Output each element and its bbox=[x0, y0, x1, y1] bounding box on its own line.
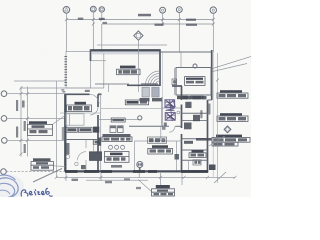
kitchen west wall upper bbox=[97, 94, 99, 107]
door jamb below stamp bbox=[164, 123, 167, 127]
bath partition x93.7 bbox=[93, 140, 95, 152]
porch outline top-left bbox=[66, 52, 91, 89]
bath partition x86 lower bbox=[85, 160, 87, 171]
store label text row right bbox=[184, 141, 193, 144]
Revised handwriting bbox=[21, 188, 52, 196]
dim text segment B-C bbox=[99, 18, 105, 20]
kitchen room label box bbox=[105, 152, 130, 163]
bottom dim line 2 bbox=[86, 179, 148, 181]
hall door swing at store bbox=[169, 126, 175, 132]
gray band below north wall bbox=[92, 52, 159, 55]
blue revision stamp squares bbox=[165, 100, 175, 120]
dark stair rect bbox=[90, 152, 102, 161]
tub fixture bbox=[184, 123, 192, 130]
bottom title box bbox=[152, 189, 175, 196]
left vertical dimension line 1 bbox=[20, 87, 23, 157]
AC unit outside right corner bbox=[209, 165, 216, 171]
kitchen island label text bbox=[103, 134, 131, 137]
grid D light continuation through block bbox=[162, 52, 164, 97]
north wall of great room bbox=[91, 49, 161, 51]
great room label box bbox=[117, 66, 141, 75]
grid bubble E bbox=[176, 7, 182, 24]
store wing partition y160 bbox=[182, 159, 208, 161]
grid line C down bbox=[101, 24, 103, 53]
stool circles bbox=[109, 145, 125, 149]
left grid bubble 3 bbox=[2, 138, 65, 144]
text dashes on corridor wall bbox=[141, 83, 158, 85]
bath partition y138.7 bbox=[182, 138, 208, 140]
hall grid line x100.7 bbox=[100, 94, 102, 170]
rotated dim text on right wall bbox=[208, 104, 210, 115]
small dim text 2.40 bbox=[200, 110, 202, 118]
hall wall x165 bbox=[161, 97, 163, 126]
right diamond marker bbox=[224, 126, 231, 133]
bedroom2 label box bbox=[185, 77, 205, 86]
rotated dim text left bbox=[16, 100, 18, 111]
grid line F light continuation bbox=[212, 52, 214, 177]
dim text D-E lower bbox=[155, 24, 164, 26]
bedroom north wall bbox=[65, 93, 102, 95]
blue stamp dark scribble bbox=[166, 100, 176, 122]
left grid bubble 1 bbox=[1, 91, 64, 97]
dark wall chunk kitchen west bbox=[98, 138, 101, 146]
grid bubble C bbox=[99, 7, 104, 20]
blue smudge behind swirl bbox=[0, 174, 24, 200]
bedroom door swing bbox=[90, 94, 100, 104]
laundry fixture below store label bbox=[193, 160, 201, 165]
grid line x104 inside great room bbox=[103, 54, 105, 89]
store label box B bbox=[189, 150, 206, 157]
right vertical dim line bbox=[214, 53, 226, 183]
eave line above north wall bbox=[97, 44, 167, 46]
door fan arcs bbox=[146, 71, 160, 85]
bed outline bbox=[66, 114, 84, 125]
porch column hatch steps bbox=[61, 56, 67, 92]
sink fixture bbox=[193, 115, 200, 121]
left outside label box upper bbox=[28, 121, 53, 135]
leader to diamond bbox=[209, 136, 225, 146]
interior line y60.7 bbox=[91, 60, 106, 62]
bedroom2 inner room outline bbox=[176, 68, 211, 96]
bath door arc bbox=[78, 152, 87, 161]
right exterior wall upper bbox=[211, 50, 213, 100]
blue pen swirl bottom left bbox=[0, 175, 18, 198]
bath fixture circle bbox=[66, 155, 70, 159]
left vertical dimension line 2 bbox=[26, 87, 29, 157]
leader diagonal top right 1 bbox=[213, 57, 252, 69]
grid bubble A top-left bbox=[63, 7, 70, 20]
grid bubble F bbox=[210, 7, 216, 24]
right outside label box 1 bbox=[217, 90, 248, 98]
left grid bubble 2 bbox=[1, 116, 64, 122]
hall partition y108 bbox=[101, 108, 162, 110]
bottom title leader diagonal bbox=[138, 180, 152, 192]
niche box on bedroom2 west wall bbox=[172, 79, 177, 85]
partition x160.8 to store bbox=[160, 126, 162, 141]
header line y81 bbox=[95, 83, 129, 85]
west wall stub of great room bbox=[90, 49, 92, 61]
store text row right bbox=[196, 138, 212, 141]
WC pan fixture bbox=[93, 140, 99, 145]
media furniture left bbox=[142, 88, 149, 98]
closet label text under furniture right bbox=[152, 98, 163, 101]
top dimension line 2 bbox=[92, 23, 215, 26]
grid line x138 inside great room bbox=[137, 47, 139, 92]
bottom title dark text bbox=[156, 185, 170, 188]
corridor wall y126.3 bbox=[129, 125, 169, 127]
wardrobe dark label row bbox=[66, 127, 99, 133]
grid line A down bbox=[65, 20, 67, 52]
bath partition y120.5 bbox=[182, 120, 208, 122]
bath labels dark row bbox=[177, 96, 204, 99]
grid bubble B bbox=[90, 6, 96, 19]
dim text 17.35 top center bbox=[138, 14, 151, 16]
small marker circle right of stamp bbox=[177, 111, 180, 114]
bath partition y113 bbox=[182, 112, 208, 114]
bottom dim text bbox=[72, 179, 79, 181]
range appliances pair bbox=[110, 126, 123, 133]
inner partition x174.5 bbox=[174, 68, 176, 95]
kitchen label box bbox=[125, 100, 148, 105]
small label on counter line bbox=[111, 118, 125, 122]
top dimension line 1 bbox=[65, 18, 215, 21]
bedroom1 label box bbox=[67, 102, 92, 112]
wall between bedroom and bath y139.5 bbox=[65, 139, 98, 141]
property line vertical x56.5 bbox=[56, 81, 58, 177]
store top wall y141 bbox=[135, 140, 182, 142]
dark mark below corridor wall bbox=[162, 127, 166, 130]
right outside label box 2 bbox=[217, 113, 248, 121]
right outside label box 3 bbox=[212, 135, 250, 146]
left grid bubble 4 with dashed leader bbox=[1, 169, 65, 175]
bath block west wall bbox=[181, 86, 183, 100]
store label box A bbox=[148, 145, 173, 154]
dim text right upper bbox=[186, 19, 196, 21]
grid line E down bbox=[178, 24, 180, 52]
top line of right block bbox=[160, 51, 212, 53]
dark fixture left of bath wall bbox=[175, 154, 180, 160]
ceiling line across bedroom bbox=[60, 112, 101, 114]
grid bubble D bbox=[160, 7, 166, 24]
dim text E-F lower bbox=[186, 24, 197, 26]
tiny 20 text at porch bottom bbox=[85, 90, 90, 92]
small fixture circle hall bbox=[75, 162, 78, 165]
revision leader line bbox=[33, 169, 62, 183]
east wall of great room bbox=[159, 49, 161, 86]
circle node on counter line bbox=[138, 116, 142, 120]
left outside label box bbox=[31, 158, 65, 170]
media furniture right bbox=[152, 88, 159, 98]
door tag circle with leader bbox=[136, 162, 143, 190]
bottom dim line 1 bbox=[55, 176, 237, 179]
setback line horizontal y88 bbox=[21, 87, 104, 89]
kitchen island label box bbox=[102, 137, 132, 142]
south wall darker piers bbox=[65, 170, 208, 173]
store partition x176.5 bbox=[176, 141, 178, 171]
utility counter above store label bbox=[148, 137, 167, 143]
closet label text under furniture left bbox=[140, 98, 150, 101]
bedroom2 lower text row bbox=[183, 96, 207, 99]
south exterior wall bbox=[65, 170, 208, 172]
kitchen door arc bbox=[90, 107, 98, 115]
corridor south wall of great room bbox=[127, 84, 160, 86]
grid line B down bbox=[92, 20, 94, 50]
small dark box left of wall bbox=[94, 127, 98, 133]
diamond marker with stem above north wall bbox=[134, 31, 143, 47]
dark fixture at bath south bbox=[81, 165, 86, 169]
counter line y119.5 bbox=[98, 119, 139, 121]
kitchen west wall lower bbox=[97, 115, 99, 171]
rotated text near west wall bbox=[62, 127, 64, 140]
bath partition x86 upper bbox=[85, 140, 87, 149]
text row below kitchen label bbox=[111, 165, 122, 168]
partition x188.5 lower right wing bbox=[188, 160, 190, 171]
leader diagonal top right 2 bbox=[213, 64, 248, 72]
grid line F right edge down bbox=[212, 24, 214, 52]
west exterior wall bbox=[64, 94, 66, 172]
pantry wall x134.5 bbox=[134, 141, 136, 171]
corridor wall continuation to bath block bbox=[172, 85, 182, 87]
right exterior wall lower bbox=[207, 100, 209, 173]
grid stubs below wall bbox=[66, 173, 182, 185]
bath partition y150 bbox=[182, 149, 208, 151]
jog between right walls bbox=[208, 99, 212, 101]
leader from upper left label to wall bbox=[53, 116, 65, 125]
toilet fixture bbox=[185, 102, 191, 108]
dim text 3.05 left bbox=[78, 18, 84, 20]
marker circle on bedroom2 wall bbox=[193, 64, 197, 68]
rotated bath label text bbox=[66, 143, 69, 155]
